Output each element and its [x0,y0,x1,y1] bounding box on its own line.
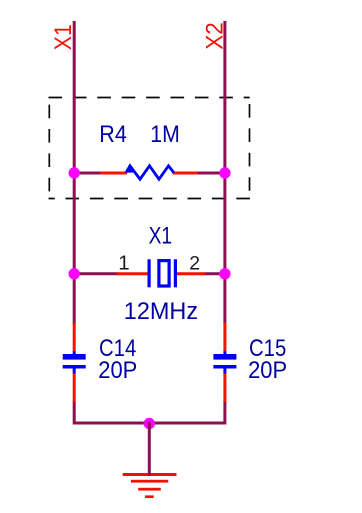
ground symbol (power ground, 4 bars) [123,473,177,498]
crystal X1 pin 2 (red lead) [175,272,206,275]
wire: right vertical net X2 [223,21,226,324]
junction dot: X1 net at crystal pin 1 [69,268,80,279]
svg-text:12MHz: 12MHz [124,298,198,325]
capacitor C14 body [63,351,86,373]
dashed selection box around R4 [49,98,250,199]
capacitor C15 pin 1 (red lead) [223,323,226,353]
capacitor C14 pin 2 (red lead) [73,373,76,402]
svg-text:1M: 1M [150,121,180,148]
svg-text:X1: X1 [149,223,173,250]
junction dot: X2 net at crystal pin 2 [219,268,230,279]
capacitor C15 pin 2 (red lead) [223,373,226,402]
wire: stub from X1 net to crystal pin 1 [74,272,117,275]
resistor R4 body (zigzag) [126,166,174,179]
crystal X1 body: right electrode plate [174,259,177,287]
capacitor C14 pin 1 (red lead) [73,323,76,353]
svg-text:R4: R4 [99,121,127,148]
junction dot: X2 net at R4 pin 2 [219,167,230,178]
junction dot: ground bus at ground stem [144,418,155,429]
svg-text:20P: 20P [248,357,287,384]
wire: stub from crystal pin 2 to X2 net [205,272,225,275]
junction dot: X1 net at R4 pin 1 [69,167,80,178]
wire: ground stem [148,422,151,476]
crystal X1 pin 1 (red lead) [117,272,151,275]
wire: bottom ground bus (left corner, bottom run, right corner) [74,401,225,423]
svg-text:2: 2 [189,252,200,274]
resistor R4 pin 2 (red lead) [173,172,198,175]
wire: left vertical net X1 [73,21,76,324]
resistor R4 pin 1 (red lead) [101,172,128,175]
wire: stub from X1 net to R4 pin 1 [74,172,102,175]
svg-text:1: 1 [118,251,129,274]
crystal X1 body: quartz rectangle [159,261,169,286]
crystal X1 body: left electrode plate [148,259,151,287]
svg-text:20P: 20P [98,357,137,384]
capacitor C15 body [213,351,236,373]
wire: stub from R4 pin 2 to X2 net [197,172,225,175]
